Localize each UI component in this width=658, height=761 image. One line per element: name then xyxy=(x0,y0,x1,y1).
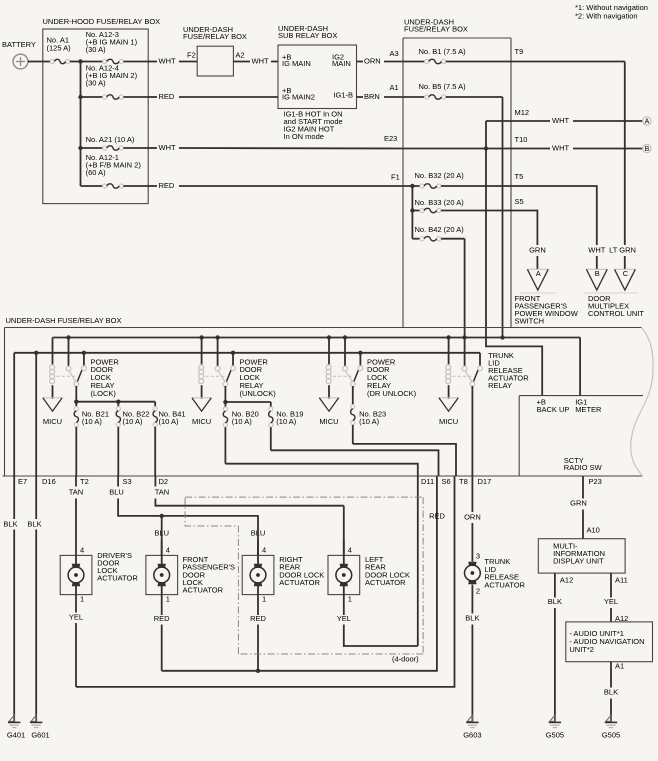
svg-text:A12: A12 xyxy=(560,575,573,584)
under-dash fuse/relay box (small) xyxy=(197,46,233,76)
wire right rear RED xyxy=(257,595,259,615)
svg-text:4: 4 xyxy=(166,545,170,554)
svg-text:G603: G603 xyxy=(463,731,481,740)
svg-text:(125 A): (125 A) xyxy=(47,44,72,53)
wire BLU to right rear actuator xyxy=(257,516,259,556)
svg-text:BACK UP: BACK UP xyxy=(537,405,570,414)
right rear door lock actuator xyxy=(242,555,274,594)
fuse No.B23 (10A) xyxy=(352,386,354,404)
svg-text:G505: G505 xyxy=(602,731,620,740)
wire trunk BLK to G603 xyxy=(471,585,473,614)
wire B42 drop to bus xyxy=(464,239,466,338)
svg-text:BLK: BLK xyxy=(27,519,41,528)
svg-text:GRN: GRN xyxy=(529,246,546,255)
svg-text:IG1-B: IG1-B xyxy=(333,91,353,100)
bus1 +B power bus xyxy=(53,337,581,339)
svg-text:B: B xyxy=(645,146,650,153)
svg-text:A1: A1 xyxy=(615,662,624,671)
svg-text:A10: A10 xyxy=(587,526,600,535)
svg-text:M12: M12 xyxy=(515,108,530,117)
svg-text:4: 4 xyxy=(348,545,352,554)
svg-text:3: 3 xyxy=(476,552,480,561)
svg-text:1: 1 xyxy=(348,594,352,603)
svg-text:No. B33 (20 A): No. B33 (20 A) xyxy=(415,198,465,207)
audio unit / audio navigation unit xyxy=(566,622,653,662)
svg-text:WHT: WHT xyxy=(552,116,569,125)
trunk lid release actuator xyxy=(468,562,476,566)
wire D16 BLK to G601 xyxy=(35,353,37,519)
ground G401 xyxy=(9,715,14,721)
fuse No.A12-3 (+B IG MAIN 1)(30A) xyxy=(81,61,103,63)
wire M12 vertical to +B BACK UP xyxy=(486,121,542,396)
inner box meter/backup xyxy=(519,395,643,397)
svg-text:MICU: MICU xyxy=(439,417,458,426)
svg-text:BLK: BLK xyxy=(3,519,17,528)
svg-text:IG MAIN2: IG MAIN2 xyxy=(282,93,315,102)
under-dash fuse/relay box (upper) xyxy=(403,37,511,39)
ground G505 left xyxy=(550,715,555,721)
micu triangle 3 xyxy=(319,397,338,399)
under-hood fuse/relay box xyxy=(43,29,148,204)
svg-text:G601: G601 xyxy=(31,731,49,740)
underline A xyxy=(520,292,556,294)
wire LT GRN drop to triangle C xyxy=(624,62,626,246)
wire S3 BLU bus xyxy=(117,476,119,487)
wire B23 to T8 xyxy=(353,444,456,476)
svg-text:T8: T8 xyxy=(459,477,468,486)
svg-text:T5: T5 xyxy=(515,172,524,181)
svg-text:(DR UNLOCK): (DR UNLOCK) xyxy=(367,389,417,398)
fuse No.B41 (10A) xyxy=(154,402,156,407)
ground G601 xyxy=(31,715,36,721)
wire D17 ORN to trunk actuator xyxy=(471,476,473,512)
svg-text:MAIN: MAIN xyxy=(332,59,351,68)
micu triangle 4 xyxy=(439,397,458,399)
svg-text:C: C xyxy=(623,269,629,278)
svg-text:A11: A11 xyxy=(615,575,628,584)
svg-text:YEL: YEL xyxy=(337,614,351,623)
wire BLU to front passenger actuator xyxy=(161,516,163,556)
svg-text:T2: T2 xyxy=(80,477,89,486)
svg-text:RELAY: RELAY xyxy=(488,381,512,390)
torn edge (right) xyxy=(631,328,653,477)
svg-text:F2: F2 xyxy=(187,51,196,60)
wire B5 drop to bus xyxy=(502,97,504,338)
svg-text:UNIT*2: UNIT*2 xyxy=(569,645,594,654)
wire YEL bus to T8 xyxy=(76,476,455,687)
micu triangle 1 xyxy=(43,397,62,399)
wire P23 GRN xyxy=(582,476,584,499)
power door lock relay (LOCK) xyxy=(52,337,54,339)
micu triangle 2 xyxy=(192,397,211,399)
svg-text:METER: METER xyxy=(575,405,602,414)
wire A11 YEL to audio unit xyxy=(610,573,612,597)
wire RED row2 xyxy=(148,96,157,98)
svg-text:(10 A): (10 A) xyxy=(359,417,380,426)
svg-text:D11: D11 xyxy=(421,477,434,486)
connector triangle A front passenger power window switch xyxy=(527,268,548,270)
svg-text:SUB RELAY BOX: SUB RELAY BOX xyxy=(278,31,337,40)
svg-text:D2: D2 xyxy=(159,477,169,486)
fuse No.A12-1 (+B F/B MAIN 2)(60A) xyxy=(81,185,103,187)
svg-text:FUSE/RELAY BOX: FUSE/RELAY BOX xyxy=(404,25,468,34)
svg-text:No. B42 (20 A): No. B42 (20 A) xyxy=(415,225,465,234)
svg-text:WHT: WHT xyxy=(552,144,569,153)
fuse No.A12-4 (+B IG MAIN 2)(30A) xyxy=(81,96,103,98)
wire battery to under-hood box xyxy=(28,61,43,63)
svg-text:RED: RED xyxy=(159,181,175,190)
svg-text:YEL: YEL xyxy=(604,597,618,606)
front passenger's door lock actuator xyxy=(146,555,178,594)
wire D2 TAN bus xyxy=(154,476,156,487)
svg-text:BATTERY: BATTERY xyxy=(2,40,36,49)
fuse No.B5 (7.5A) xyxy=(403,96,424,98)
driver's door lock actuator xyxy=(60,555,92,594)
wire S5 GRN drop to triangle A xyxy=(511,211,537,246)
svg-text:(60 A): (60 A) xyxy=(86,168,107,177)
svg-text:GRN: GRN xyxy=(570,498,587,507)
underline B C xyxy=(584,292,639,294)
svg-text:FUSE/RELAY BOX: FUSE/RELAY BOX xyxy=(183,32,247,41)
svg-text:A: A xyxy=(645,119,650,126)
wire E7 BLK to G401 xyxy=(13,353,15,519)
svg-text:1: 1 xyxy=(166,594,170,603)
power door lock relay (DR UNLOCK) xyxy=(328,338,330,365)
svg-text:G401: G401 xyxy=(7,731,25,740)
wire front passenger RED xyxy=(161,595,163,615)
wire WHT row1 xyxy=(148,61,157,63)
svg-text:LT GRN: LT GRN xyxy=(609,246,636,255)
svg-text:MICU: MICU xyxy=(192,417,211,426)
svg-text:No. A21 (10 A): No. A21 (10 A) xyxy=(86,135,135,144)
svg-text:RADIO SW: RADIO SW xyxy=(564,463,603,472)
wire WHT row1b xyxy=(233,61,250,63)
wire BRN row2 to A1 xyxy=(357,96,364,98)
fuse No.A1 (125A) xyxy=(43,61,50,63)
svg-text:E23: E23 xyxy=(384,134,397,143)
svg-text:P23: P23 xyxy=(589,477,602,486)
svg-text:(10 A): (10 A) xyxy=(82,417,103,426)
svg-text:BRN: BRN xyxy=(364,92,380,101)
wire IG1 feed drop xyxy=(579,338,581,396)
svg-text:UNDER-DASH FUSE/RELAY BOX: UNDER-DASH FUSE/RELAY BOX xyxy=(6,316,122,325)
svg-text:TAN: TAN xyxy=(155,487,169,496)
fuse No.B33 (20A) to S5 xyxy=(411,186,413,239)
svg-text:RED: RED xyxy=(154,614,170,623)
svg-text:WHT: WHT xyxy=(159,57,176,66)
svg-text:D17: D17 xyxy=(478,477,492,486)
svg-text:(UNLOCK): (UNLOCK) xyxy=(240,389,277,398)
svg-text:DISPLAY UNIT: DISPLAY UNIT xyxy=(553,557,604,566)
svg-text:(10 A): (10 A) xyxy=(276,417,297,426)
svg-text:D16: D16 xyxy=(42,477,56,486)
svg-text:BLK: BLK xyxy=(548,597,562,606)
svg-text:RED: RED xyxy=(429,512,445,521)
svg-text:No. B1 (7.5 A): No. B1 (7.5 A) xyxy=(419,47,467,56)
wire B19 to S6 xyxy=(271,450,439,476)
fuse No.B42 (20A) xyxy=(412,238,420,240)
svg-text:ORN: ORN xyxy=(464,512,481,521)
left rear door lock actuator xyxy=(328,555,360,594)
wire left rear YEL to D11 xyxy=(343,595,345,615)
wire A1 BLK to G505 xyxy=(610,662,612,688)
svg-text:(10 A): (10 A) xyxy=(123,417,144,426)
svg-text:A3: A3 xyxy=(390,49,399,58)
dash-dot 4-door boundary xyxy=(185,496,423,498)
svg-text:IG MAIN: IG MAIN xyxy=(282,59,311,68)
wire driver YEL xyxy=(75,595,77,613)
wire RED row4 to F1 xyxy=(148,185,157,187)
svg-text:YEL: YEL xyxy=(69,613,83,622)
fuse No.B32 (20A) F1-T5 xyxy=(403,185,420,187)
svg-text:BLU: BLU xyxy=(109,487,124,496)
ground G603 xyxy=(467,715,472,721)
svg-text:TAN: TAN xyxy=(69,487,83,496)
fuse No.B21 (10A) xyxy=(75,402,77,407)
svg-text:A: A xyxy=(536,269,541,278)
svg-text:4: 4 xyxy=(80,545,84,554)
svg-text:G505: G505 xyxy=(546,731,564,740)
svg-text:WHT: WHT xyxy=(252,57,269,66)
svg-text:WHT: WHT xyxy=(159,143,176,152)
wire B20 to D11 xyxy=(225,464,417,476)
svg-text:BLK: BLK xyxy=(465,614,479,623)
svg-text:WHT: WHT xyxy=(588,246,605,255)
svg-text:T10: T10 xyxy=(515,135,528,144)
svg-text:MICU: MICU xyxy=(43,417,62,426)
svg-text:UNDER-HOOD FUSE/RELAY BOX: UNDER-HOOD FUSE/RELAY BOX xyxy=(43,17,161,26)
svg-text:No. B5 (7.5 A): No. B5 (7.5 A) xyxy=(419,82,467,91)
svg-text:SWITCH: SWITCH xyxy=(515,316,545,325)
wire RED bus to S6 xyxy=(162,476,437,671)
svg-text:A1: A1 xyxy=(390,83,399,92)
trunk lid release actuator relay xyxy=(448,338,450,365)
svg-text:1: 1 xyxy=(262,594,266,603)
wire WHT row3 to E23 xyxy=(148,147,157,149)
svg-text:B: B xyxy=(595,269,600,278)
svg-text:ACTUATOR: ACTUATOR xyxy=(365,578,406,587)
fuse No.B19 (10A) xyxy=(270,402,272,407)
svg-text:MICU: MICU xyxy=(319,417,338,426)
svg-text:RED: RED xyxy=(250,614,266,623)
svg-text:F1: F1 xyxy=(391,173,400,182)
wire T5 WHT drop to triangle B xyxy=(511,186,597,245)
svg-text:2: 2 xyxy=(476,586,480,595)
svg-text:RED: RED xyxy=(159,92,175,101)
relay UNLOCK output bus xyxy=(225,386,270,402)
ground G505 right xyxy=(606,715,611,721)
svg-text:A2: A2 xyxy=(235,51,244,60)
svg-text:E7: E7 xyxy=(18,477,27,486)
fuse No.B20 (10A) xyxy=(224,402,226,407)
multi-information display unit xyxy=(538,539,625,573)
svg-text:(4-door): (4-door) xyxy=(392,654,419,663)
connector triangle C door multiplex xyxy=(615,268,636,270)
svg-text:ACTUATOR: ACTUATOR xyxy=(484,581,525,590)
svg-text:T9: T9 xyxy=(515,47,524,56)
svg-text:1: 1 xyxy=(80,594,84,603)
fuse No.B22 (10A) xyxy=(117,402,119,407)
wire A12 BLK to G505 xyxy=(554,573,556,597)
wire ORN row1 to A3 xyxy=(357,61,364,63)
bus2 ground bus xyxy=(14,352,480,354)
fuse No.B1 (7.5A) xyxy=(403,61,424,63)
wire trunk relay to D17 xyxy=(471,386,473,476)
svg-text:(10 A): (10 A) xyxy=(232,417,253,426)
relay LOCK output bus xyxy=(76,386,155,402)
wire T2 TAN to driver actuator xyxy=(75,476,77,487)
svg-text:4: 4 xyxy=(262,545,266,554)
battery xyxy=(13,54,28,69)
fuse No.A21 (10A) xyxy=(81,147,103,149)
svg-text:ACTUATOR: ACTUATOR xyxy=(183,586,224,595)
node: under-hood feed junction xyxy=(80,62,82,187)
svg-text:S5: S5 xyxy=(515,197,524,206)
svg-text:*2: With navigation: *2: With navigation xyxy=(575,11,638,20)
svg-text:(10 A): (10 A) xyxy=(159,417,180,426)
svg-text:ACTUATOR: ACTUATOR xyxy=(279,578,320,587)
svg-text:(30 A): (30 A) xyxy=(86,45,107,54)
svg-text:(LOCK): (LOCK) xyxy=(91,389,117,398)
svg-text:In ON mode: In ON mode xyxy=(284,132,324,141)
svg-text:ACTUATOR: ACTUATOR xyxy=(97,573,138,582)
svg-text:CONTROL UNIT: CONTROL UNIT xyxy=(588,309,644,318)
wire TAN to left rear actuator xyxy=(343,506,345,556)
wire D11 drop xyxy=(417,476,419,646)
power door lock relay (UNLOCK) xyxy=(201,338,203,365)
svg-text:S6: S6 xyxy=(442,477,451,486)
svg-text:S3: S3 xyxy=(123,477,132,486)
connector triangle B door multiplex xyxy=(586,268,607,270)
svg-text:ORN: ORN xyxy=(364,57,381,66)
svg-text:(30 A): (30 A) xyxy=(86,78,107,87)
svg-text:BLK: BLK xyxy=(604,688,618,697)
under-dash sub relay box xyxy=(278,45,357,109)
svg-text:No. B32 (20 A): No. B32 (20 A) xyxy=(415,171,465,180)
